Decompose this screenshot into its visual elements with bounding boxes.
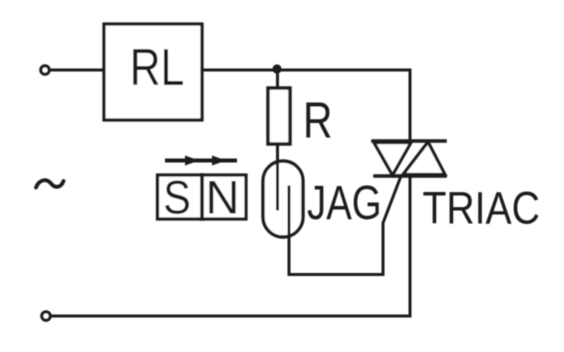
svg-text:R: R [303,91,332,148]
arrow (magnet motion, double arrow) [167,156,235,166]
label JAG [307,177,382,230]
terminal J2 (bottom-left input) [42,312,50,320]
TRIAC (left triangle, points down) [374,143,411,176]
svg-text:S: S [163,172,191,224]
wire (top terminal to RL box) [50,69,104,72]
magnet divider [200,175,204,219]
svg-text:N: N [206,171,240,224]
TRIAC (bottom bar MT1) [375,174,445,178]
label RL [130,39,185,97]
magnet S-N (box) [158,175,247,219]
load RL (box) [104,24,202,120]
svg-text:TRIAC: TRIAC [423,183,540,233]
wire (TRIAC MT1 down to bottom rail) [409,176,412,316]
TRIAC (right triangle, points up) [403,142,445,175]
node A (junction dot) [272,64,281,73]
reed contact (upper blade) [276,162,279,209]
wire (reed switch bottom lead) [288,236,291,275]
resistor R [268,88,290,144]
reed contact (lower blade) [288,187,291,236]
reed switch JAG (glass capsule) [263,161,303,237]
wire (top rail corner down to TRIAC MT2) [409,70,412,141]
label S [163,172,191,224]
wire (bottom rail) [50,315,410,318]
wire (gate rail to reed switch) [289,273,383,276]
svg-text:RL: RL [130,39,185,97]
terminal J1 (top-left input) [41,66,49,74]
wire (junction down to resistor) [276,70,279,88]
wire (resistor to reed switch) [276,144,279,163]
wire (RL box to right corner, top rail) [202,69,410,72]
svg-text:JAG: JAG [307,177,382,230]
AC source symbol ~ [36,180,64,187]
TRIAC (top bar MT2) [373,139,445,143]
label TRIAC [423,183,540,233]
label N [206,171,240,224]
label R [303,91,332,148]
wire (TRIAC gate diagonal) [383,176,401,275]
